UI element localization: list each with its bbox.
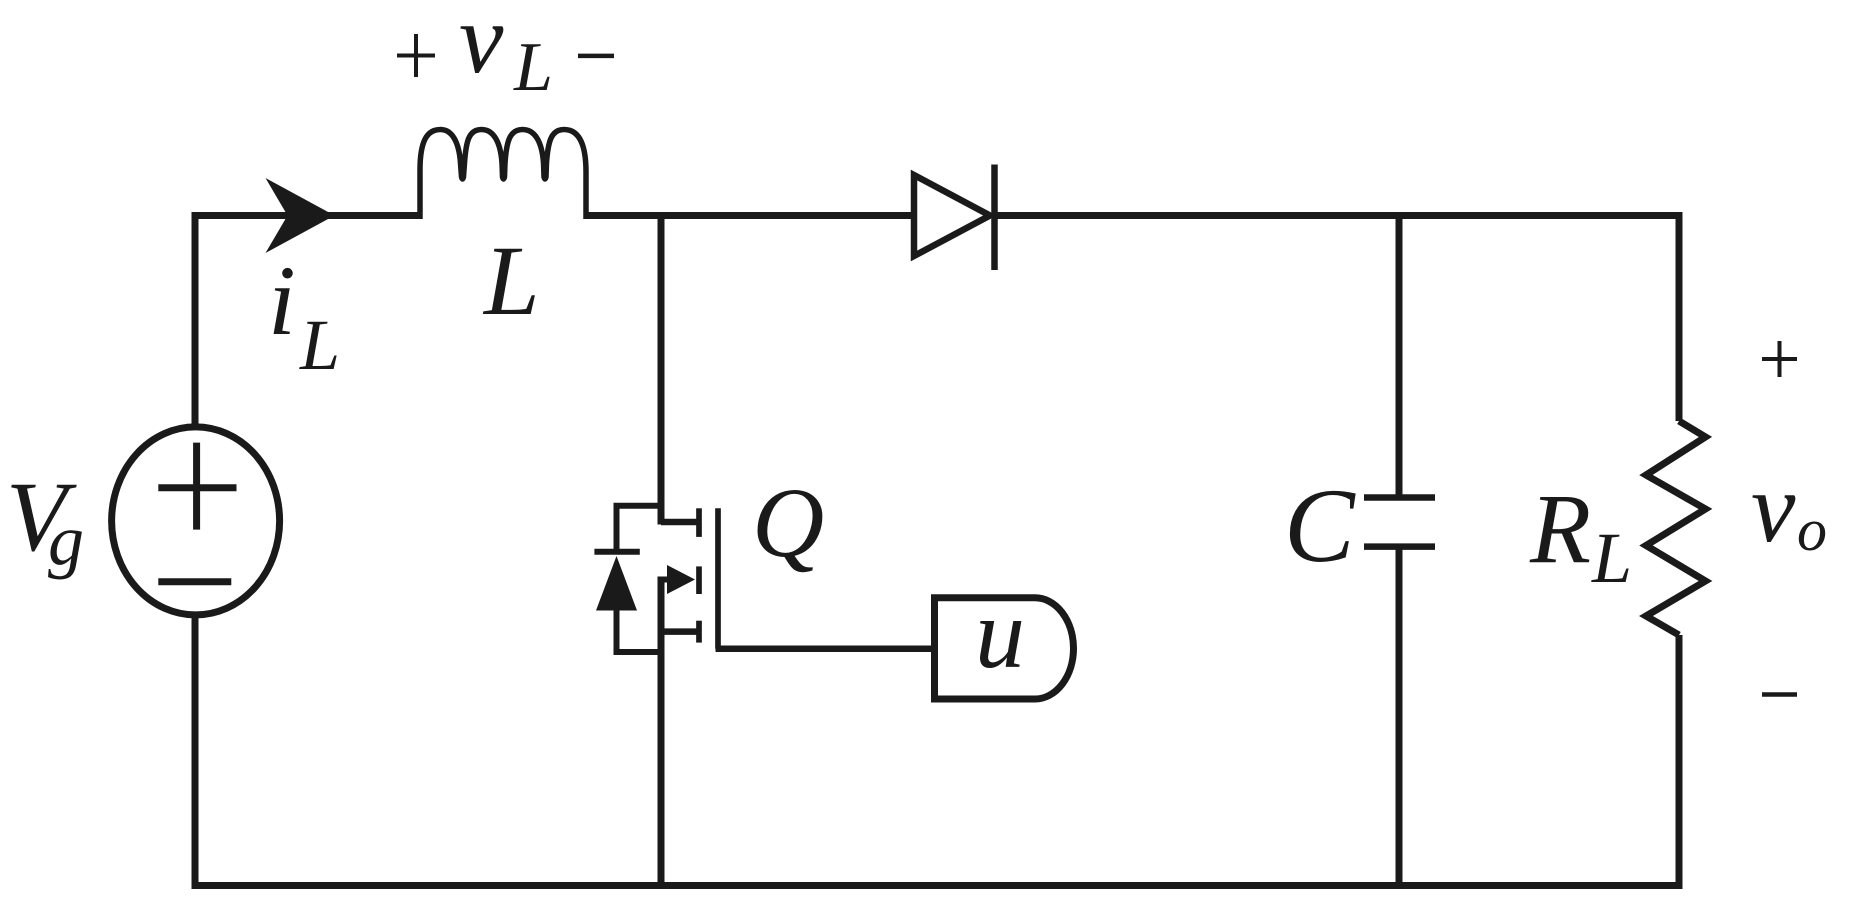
transistor Q channel bar top <box>696 508 702 537</box>
svg-text:i: i <box>268 245 296 356</box>
voltage source minus <box>158 578 231 585</box>
wire top rail middle segment <box>586 212 912 219</box>
wire left rail upper <box>192 212 199 428</box>
voltage source Vg circle <box>112 427 280 615</box>
svg-text:o: o <box>1797 497 1827 563</box>
inductor L coil <box>420 130 586 220</box>
gate drive block u <box>935 598 1074 699</box>
wire drain branch <box>658 212 665 525</box>
transistor Q channel bar middle <box>696 566 702 594</box>
label minus of vL <box>578 54 614 59</box>
resistor RL zigzag <box>1646 421 1706 635</box>
wire bottom rail <box>192 882 1683 889</box>
transistor Q body lead <box>658 577 672 583</box>
svg-text:u: u <box>975 578 1025 689</box>
svg-text:v: v <box>1751 452 1796 563</box>
transistor Q drain lead <box>661 519 699 526</box>
svg-text:C: C <box>1284 467 1356 584</box>
svg-text:v: v <box>459 0 504 94</box>
transistor Q source lead <box>661 628 699 635</box>
wire top rail right segment <box>992 212 1683 219</box>
gate wire <box>716 646 935 653</box>
svg-text:R: R <box>1529 473 1591 584</box>
wire top rail left segment <box>192 212 421 219</box>
body diode bottom wire <box>614 649 662 655</box>
current arrow iL <box>266 178 335 253</box>
diode D triangle <box>914 175 990 256</box>
wire capacitor branch lower <box>1396 547 1403 889</box>
body diode lower leg <box>614 609 620 655</box>
diode D cathode bar <box>991 165 998 271</box>
transistor Q gate electrode <box>715 508 721 649</box>
wire left rail lower <box>192 613 199 889</box>
wire right rail upper <box>1676 212 1683 421</box>
label minus of vo <box>1762 692 1797 697</box>
label + of vo <box>1762 341 1797 377</box>
svg-text:Q: Q <box>752 467 824 578</box>
body diode triangle <box>596 556 637 611</box>
wire source branch <box>658 577 665 890</box>
svg-text:L: L <box>299 305 340 385</box>
body diode cathode bar <box>594 549 639 555</box>
body diode top wire <box>614 503 662 509</box>
label + of vL <box>397 34 435 77</box>
svg-text:L: L <box>513 29 553 106</box>
wire right rail lower <box>1676 635 1683 889</box>
wire capacitor branch upper <box>1396 212 1403 498</box>
capacitor C top plate <box>1364 494 1435 501</box>
body diode upper leg <box>614 503 620 552</box>
svg-text:L: L <box>482 225 540 336</box>
transistor Q body arrow <box>667 565 695 594</box>
transistor Q channel bar bottom <box>696 621 702 643</box>
voltage source plus <box>158 443 236 530</box>
capacitor C bottom plate <box>1364 543 1435 550</box>
svg-text:g: g <box>48 500 84 580</box>
svg-text:L: L <box>1591 518 1632 598</box>
